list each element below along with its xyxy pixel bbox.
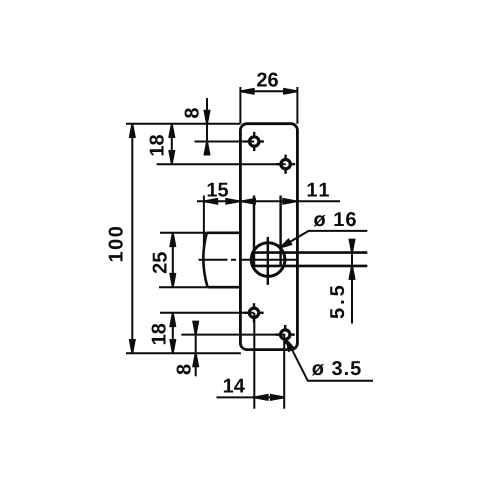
dimension 18 top line bbox=[171, 124, 173, 165]
extension line bottom (plate bottom, to 100 dim) bbox=[126, 352, 241, 354]
horizontal centerline (dash-dot) bbox=[199, 259, 298, 261]
svg-text:14: 14 bbox=[223, 376, 246, 398]
spindle slot left extension bbox=[253, 196, 255, 267]
dimension 14 extension from H4 bbox=[283, 335, 285, 409]
screw hole H4 centerline bbox=[181, 334, 285, 336]
dimension 15/11 shared line bbox=[197, 200, 340, 202]
dimension 100 line bbox=[131, 124, 133, 354]
dimension 26 extension lines bbox=[239, 87, 241, 124]
faceplate outline bbox=[240, 124, 297, 350]
screw hole H2 centerline bbox=[157, 163, 286, 165]
leader O16 bbox=[282, 231, 368, 247]
spindle slot lower line bbox=[252, 265, 368, 268]
leader O3.5 bbox=[288, 342, 373, 381]
screw hole H2 bbox=[276, 155, 295, 174]
lock case bump top edge bbox=[207, 232, 241, 235]
svg-text:8: 8 bbox=[182, 107, 204, 118]
svg-text:11: 11 bbox=[306, 179, 331, 201]
lock case bump bottom edge bbox=[208, 286, 241, 289]
svg-text:8: 8 bbox=[174, 364, 196, 375]
dimension 18 bottom line bbox=[172, 313, 174, 353]
svg-text:15: 15 bbox=[206, 179, 228, 201]
dimension 14 extension from H3 bbox=[253, 313, 255, 409]
svg-text:26: 26 bbox=[256, 70, 278, 92]
lock case bump left arc bbox=[203, 233, 207, 287]
dimension 25 top extension bbox=[160, 232, 207, 234]
svg-text:18: 18 bbox=[147, 134, 169, 156]
dimension 25 bottom extension bbox=[159, 286, 208, 288]
svg-text:25: 25 bbox=[150, 252, 172, 274]
follower circle O16 bbox=[251, 243, 285, 277]
spindle slot right extension bbox=[279, 196, 281, 267]
svg-text:100: 100 bbox=[106, 225, 128, 263]
dimension 5.5 line bbox=[351, 243, 353, 324]
screw hole H1 centerline bbox=[195, 141, 255, 143]
extension line bump left edge bbox=[203, 196, 205, 247]
svg-text:18: 18 bbox=[149, 323, 171, 345]
dimension 8 top line bbox=[206, 98, 208, 153]
dimension 8 bottom line bbox=[195, 325, 197, 376]
svg-text:ø 3.5: ø 3.5 bbox=[312, 358, 363, 380]
svg-text:ø 16: ø 16 bbox=[313, 209, 357, 231]
spindle slot upper line bbox=[252, 251, 368, 254]
screw hole H1 bbox=[245, 132, 264, 151]
extension line top (plate top, to 100 dim) bbox=[126, 123, 240, 125]
screw hole H4 bbox=[276, 325, 295, 344]
dimension 14 line bbox=[217, 396, 285, 398]
screw hole H3 bbox=[244, 303, 263, 322]
svg-text:5.5: 5.5 bbox=[327, 282, 349, 319]
dimension 25 line bbox=[172, 233, 174, 287]
dimension 26 line bbox=[240, 90, 297, 92]
screw hole H3 centerline bbox=[160, 312, 254, 314]
vertical centerline of follower bbox=[267, 237, 269, 285]
